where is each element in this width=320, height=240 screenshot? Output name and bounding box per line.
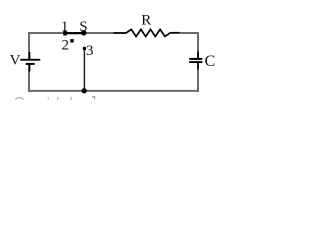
battery V short plate — [26, 63, 35, 65]
battery V terminal stub upper (black) — [29, 52, 31, 59]
wire: left rail upper — [28, 32, 30, 59]
svg-text:R: R — [141, 13, 151, 29]
wire: right rail upper — [197, 32, 199, 59]
wire: bottom rail — [28, 90, 199, 92]
wire: from switch contact 3 down to bottom junction — [83, 48, 85, 90]
resistor R right lead — [170, 32, 179, 34]
resistor R zigzag body — [126, 29, 170, 36]
switch S blade (closed, pivot to contact 1) — [65, 32, 84, 34]
wire: top rail — [28, 32, 114, 34]
cut-off caption: round glyph top arc — [16, 98, 24, 100]
cut-off caption: small glyph corner below junction — [92, 97, 95, 100]
svg-text:V: V — [10, 53, 21, 69]
svg-text:S: S — [79, 19, 87, 35]
capacitor C terminal stub upper (black) — [197, 52, 199, 59]
svg-text:C: C — [205, 53, 216, 70]
switch contact 2 (square pad) — [70, 39, 73, 42]
switch pivot S (round pad) — [81, 30, 86, 35]
wire: right rail lower — [197, 63, 199, 92]
battery V long plate — [20, 59, 40, 61]
switch contact 3 (round pad) — [83, 47, 87, 51]
cut-off caption: glyph tick — [47, 97, 49, 100]
cut-off caption: glyph tick — [57, 97, 59, 100]
capacitor C terminal stub lower (black) — [197, 63, 199, 70]
battery V terminal stub lower (black) — [29, 65, 31, 72]
capacitor C bottom plate — [189, 61, 202, 63]
switch contact 1 (square pad) — [63, 31, 67, 36]
wire: left rail lower — [28, 65, 30, 92]
resistor R left lead — [114, 32, 127, 34]
wire: top rail right of resistor — [180, 32, 200, 34]
capacitor C top plate — [189, 58, 202, 60]
svg-text:3: 3 — [86, 43, 94, 59]
junction node on bottom rail — [82, 88, 87, 93]
svg-text:1: 1 — [61, 19, 69, 35]
cut-off caption: glyph tick — [70, 97, 72, 100]
svg-text:2: 2 — [61, 38, 69, 54]
